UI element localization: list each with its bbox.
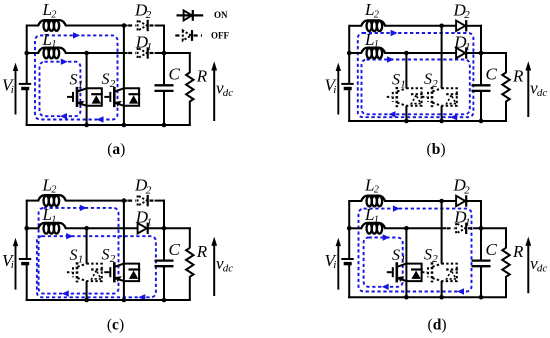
svg-text:2: 2 xyxy=(374,185,379,196)
svg-text:(b): (b) xyxy=(427,141,446,158)
svg-text:2: 2 xyxy=(464,9,470,21)
svg-text:C: C xyxy=(169,240,181,259)
wire S1 branch xyxy=(86,53,88,125)
transistor S2 xyxy=(422,87,458,107)
svg-text:(c): (c) xyxy=(107,317,124,334)
battery Vi xyxy=(341,258,353,260)
svg-text:OFF: OFF xyxy=(211,31,229,41)
wire S2 branch xyxy=(441,201,443,264)
svg-text:1: 1 xyxy=(374,39,379,50)
wire S1 branch xyxy=(86,228,88,263)
svg-text:S: S xyxy=(102,71,110,88)
battery Vi xyxy=(19,83,31,85)
inductor L2 xyxy=(38,20,66,26)
inductor L1 xyxy=(361,48,385,54)
node S2 bottom junction xyxy=(439,295,444,300)
diode D2 xyxy=(456,195,466,206)
resistor R xyxy=(502,73,509,102)
svg-text:L: L xyxy=(42,175,52,194)
node left-L1 junction xyxy=(347,51,352,56)
svg-text:dc: dc xyxy=(537,87,548,99)
wire S1 branch xyxy=(405,53,407,88)
node D1-C junction xyxy=(162,226,167,231)
transistor S1 xyxy=(67,87,103,107)
wire S2 branch xyxy=(123,201,125,300)
wire top rail xyxy=(27,200,39,202)
transistor S2 xyxy=(422,262,458,282)
svg-text:L: L xyxy=(364,30,374,49)
svg-text:1: 1 xyxy=(465,216,471,228)
wire top rail xyxy=(349,25,362,27)
inductor L2 xyxy=(361,20,385,26)
wire S1 branch xyxy=(405,228,407,297)
arrow Vi polarity xyxy=(337,244,339,290)
inductor L1 xyxy=(38,223,66,229)
svg-text:1: 1 xyxy=(400,78,406,90)
capacitor C xyxy=(155,84,174,86)
wire L1 rail xyxy=(27,227,39,229)
svg-text:1: 1 xyxy=(51,39,56,50)
node S2 bottom junction xyxy=(122,298,127,303)
arrow Vi polarity xyxy=(337,69,339,115)
current loop L2-D2-C xyxy=(358,30,474,121)
node C bottom junction xyxy=(479,119,484,124)
svg-text:1: 1 xyxy=(51,215,56,226)
wire S2 branch xyxy=(441,26,443,89)
node S2 bottom junction xyxy=(439,119,444,124)
node S1 bottom junction xyxy=(404,119,409,124)
svg-text:S: S xyxy=(424,71,432,88)
current loop L1-S1 xyxy=(364,234,403,290)
wire bottom rail xyxy=(348,296,507,298)
svg-text:1: 1 xyxy=(400,254,406,266)
inductor L2 xyxy=(361,196,385,202)
wire R branch vertical xyxy=(505,52,507,73)
svg-text:C: C xyxy=(169,65,181,84)
diode D2 xyxy=(128,20,157,31)
capacitor C xyxy=(155,259,174,261)
transistor S2 xyxy=(104,87,140,107)
svg-text:(a): (a) xyxy=(107,141,125,158)
svg-text:1: 1 xyxy=(465,41,471,53)
node S1 drain junction xyxy=(404,226,409,231)
svg-text:i: i xyxy=(333,259,336,271)
svg-text:2: 2 xyxy=(146,9,152,21)
inductor L2 xyxy=(38,195,66,201)
diode D1 xyxy=(138,223,148,234)
svg-text:R: R xyxy=(512,242,524,261)
svg-text:1: 1 xyxy=(147,41,153,53)
svg-text:2: 2 xyxy=(432,78,438,90)
current loop L2-S2 xyxy=(39,205,119,297)
battery Vi xyxy=(19,258,31,260)
wire bottom rail xyxy=(26,299,191,301)
svg-text:L: L xyxy=(364,175,374,194)
arrow Vi polarity xyxy=(15,244,17,290)
wire L1 rail xyxy=(349,52,362,54)
node C bottom junction xyxy=(162,123,167,128)
node S1 bottom junction xyxy=(84,123,89,128)
node S2 drain junction xyxy=(439,24,444,29)
node S2 drain junction xyxy=(122,198,127,203)
svg-text:L: L xyxy=(42,205,52,224)
arrow vdc xyxy=(527,69,529,118)
wire R branch vertical xyxy=(189,52,191,73)
node C bottom junction xyxy=(162,298,167,303)
svg-text:1: 1 xyxy=(78,78,84,90)
wire top rail xyxy=(349,200,362,202)
wire R branch vertical xyxy=(189,227,191,248)
wire left vertical xyxy=(26,25,28,84)
node S1 drain junction xyxy=(404,51,409,56)
wire L1 rail xyxy=(27,52,39,54)
node D1-C junction xyxy=(479,226,484,231)
transistor S1 xyxy=(387,262,423,282)
node left-L1 junction xyxy=(347,226,352,231)
svg-text:2: 2 xyxy=(110,78,116,90)
capacitor C xyxy=(472,259,491,261)
svg-text:i: i xyxy=(11,84,14,96)
svg-text:C: C xyxy=(486,240,498,259)
svg-text:2: 2 xyxy=(374,9,379,20)
svg-text:L: L xyxy=(42,0,52,19)
node S1 bottom junction xyxy=(404,295,409,300)
svg-text:2: 2 xyxy=(51,185,56,196)
node S2 drain junction xyxy=(122,23,127,28)
svg-text:L: L xyxy=(364,0,374,19)
svg-text:R: R xyxy=(196,67,208,86)
legend OFF diode symbol xyxy=(175,30,202,41)
svg-text:S: S xyxy=(102,246,110,263)
arrow Vi polarity xyxy=(15,69,17,115)
diode D2 xyxy=(456,20,466,31)
svg-text:dc: dc xyxy=(223,87,234,99)
svg-text:i: i xyxy=(333,84,336,96)
svg-text:1: 1 xyxy=(374,215,379,226)
svg-text:2: 2 xyxy=(110,253,116,265)
svg-text:1: 1 xyxy=(147,216,153,228)
capacitor C xyxy=(472,84,491,86)
node S1 drain junction xyxy=(84,226,89,231)
wire output vertical (C branch) xyxy=(480,200,482,261)
wire left vertical xyxy=(348,25,350,84)
wire top rail xyxy=(27,25,39,27)
svg-text:dc: dc xyxy=(223,262,234,274)
wire left vertical xyxy=(26,200,28,259)
svg-text:2: 2 xyxy=(51,9,56,20)
svg-text:C: C xyxy=(486,65,498,84)
resistor R xyxy=(186,248,193,277)
node S1 drain junction xyxy=(84,51,89,56)
svg-text:S: S xyxy=(70,247,78,264)
wire bottom rail xyxy=(26,124,191,126)
arrow vdc xyxy=(213,244,215,296)
resistor R xyxy=(186,73,193,102)
wire bottom rail xyxy=(348,120,507,122)
svg-text:2: 2 xyxy=(432,253,438,265)
svg-text:1: 1 xyxy=(78,254,84,266)
svg-text:R: R xyxy=(196,242,208,261)
current loop L2-D2-C xyxy=(359,205,472,294)
diode D1 xyxy=(128,47,157,58)
svg-text:L: L xyxy=(42,30,52,49)
current loop L1-D1 xyxy=(362,56,470,117)
svg-text:dc: dc xyxy=(537,262,548,274)
current loop L1-S1 xyxy=(40,59,81,120)
svg-text:i: i xyxy=(11,259,14,271)
node C bottom junction xyxy=(479,295,484,300)
wire R branch vertical xyxy=(505,227,507,248)
node left-L1 junction xyxy=(24,51,29,56)
diode D1 xyxy=(447,223,476,234)
svg-text:(d): (d) xyxy=(428,317,447,334)
svg-text:ON: ON xyxy=(214,10,228,20)
transistor S1 xyxy=(67,262,103,282)
arrow vdc xyxy=(213,69,215,122)
arrow vdc xyxy=(527,244,529,293)
wire output vertical (C branch) xyxy=(163,25,165,86)
node left-L1 junction xyxy=(24,226,29,231)
diode D2 xyxy=(128,195,157,206)
svg-text:2: 2 xyxy=(146,184,152,196)
wire L1 rail xyxy=(349,227,362,229)
inductor L1 xyxy=(361,223,385,229)
node D1-C junction xyxy=(162,51,167,56)
current loop L1-D1-C xyxy=(37,233,156,301)
transistor S2 xyxy=(104,262,140,282)
resistor R xyxy=(502,248,509,277)
node S2 bottom junction xyxy=(122,123,127,128)
node D1-C junction xyxy=(479,51,484,56)
wire S2 branch xyxy=(123,26,125,126)
diode D1 xyxy=(456,47,466,58)
wire output vertical (C branch) xyxy=(163,200,165,261)
svg-text:L: L xyxy=(364,205,374,224)
svg-text:S: S xyxy=(392,72,400,89)
current loop L2-S2 xyxy=(35,32,118,123)
wire left vertical xyxy=(348,200,350,259)
svg-text:S: S xyxy=(70,72,78,89)
node S1 bottom junction xyxy=(84,298,89,303)
battery Vi xyxy=(341,83,353,85)
svg-text:S: S xyxy=(424,246,432,263)
svg-text:R: R xyxy=(512,67,524,86)
svg-text:S: S xyxy=(392,247,400,264)
transistor S1 xyxy=(387,87,423,107)
node S2 drain junction xyxy=(439,199,444,204)
wire output vertical (C branch) xyxy=(480,25,482,86)
svg-text:2: 2 xyxy=(464,184,470,196)
inductor L1 xyxy=(38,48,66,54)
legend ON diode symbol xyxy=(177,10,204,21)
